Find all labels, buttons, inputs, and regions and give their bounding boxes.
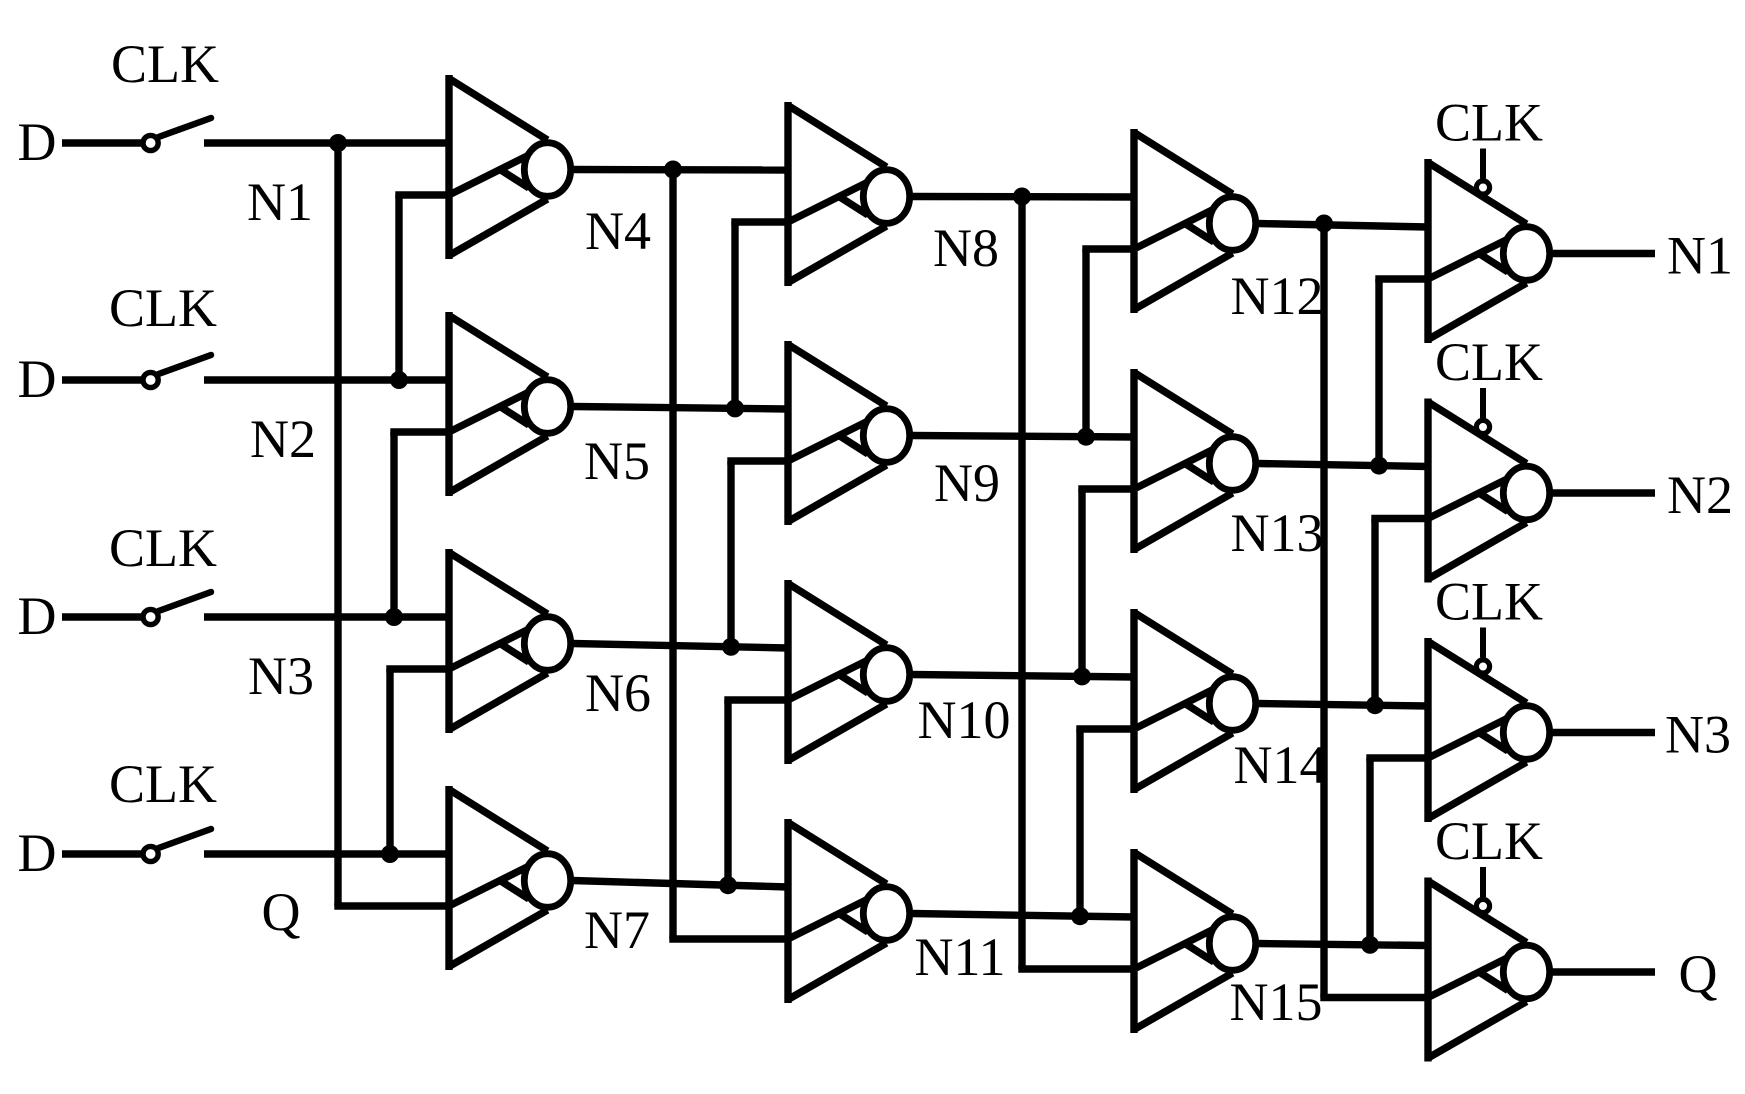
wire D input row 1 (left of switch): [62, 139, 141, 146]
svg-text:N14: N14: [1234, 735, 1327, 795]
wire node N12 output of inverter col3 row1: [1258, 224, 1429, 228]
wire node N14 output of inverter col3 row3: [1258, 704, 1429, 707]
wire node N8 output of inverter col2 row1: [912, 193, 1135, 201]
wire lower-input stub inverter col3 row2 horizontal: [1078, 485, 1134, 492]
wire lower-input stub inverter col3 row3 vertical: [1076, 729, 1083, 916]
wire node N2 from switch to inverter column 1: [204, 376, 449, 383]
wire output node N3 of inverter col4 row3: [1552, 729, 1656, 736]
wire lower-input stub inverter col3 row1 horizontal: [1082, 245, 1134, 252]
inverter G23 col2 row3: [788, 580, 910, 764]
svg-text:N7: N7: [584, 900, 650, 960]
svg-text:Q: Q: [1679, 944, 1718, 1004]
wire lower-input stub inverter col4 row1 horizontal: [1375, 275, 1428, 282]
svg-text:N6: N6: [585, 663, 651, 723]
junction stub col4 row3 on node wire: [1361, 936, 1379, 954]
inverter G24 col2 row4: [788, 819, 910, 1003]
inverter G22 col2 row2: [788, 341, 910, 525]
clock switch on inverter col4 row3: [1476, 628, 1489, 674]
svg-text:D: D: [18, 112, 57, 172]
wire lower-input stub inverter col1 row3 vertical: [386, 669, 393, 854]
svg-text:Q: Q: [262, 882, 301, 942]
wire lower-input stub inverter col2 row3 vertical: [724, 700, 731, 885]
svg-text:N1: N1: [1667, 226, 1733, 286]
wire feedback bus 3 bottom horizontal to inverter col3 row4 lower input: [1018, 965, 1134, 972]
junction stub col3 row1 on node wire: [1077, 428, 1095, 446]
svg-text:D: D: [18, 349, 57, 409]
inverter G14 col1 row4: [449, 786, 571, 970]
svg-text:CLK: CLK: [1435, 93, 1543, 153]
wire feedback bus 2 vertical: [669, 170, 676, 940]
inverter G44 col4 row4: [1428, 878, 1550, 1062]
junction bus 2 on node N4 wire: [664, 161, 682, 179]
wire node N11 output of inverter col2 row4: [912, 914, 1135, 918]
junction stub col2 row1 on node wire: [726, 399, 744, 417]
wire output node Q of inverter col4 row4: [1552, 968, 1656, 975]
wire lower-input stub inverter col2 row2 vertical: [727, 461, 734, 647]
wire feedback bus 1 bottom horizontal to inverter col1 row4 lower input: [334, 902, 449, 909]
wire node N10 output of inverter col2 row3: [912, 675, 1135, 678]
wire feedback bus 2 bottom horizontal to inverter col2 row4 lower input: [669, 935, 788, 942]
wire lower-input stub inverter col1 row2 vertical: [390, 432, 397, 617]
switch SW2 lever (CLK controlled) row 2: [143, 355, 211, 388]
svg-text:N11: N11: [915, 927, 1006, 987]
svg-text:N8: N8: [933, 218, 999, 278]
wire node N9 output of inverter col2 row2: [912, 436, 1135, 438]
wire node N6 output of inverter col1 row3: [573, 644, 789, 649]
svg-text:CLK: CLK: [1435, 572, 1543, 632]
svg-text:N15: N15: [1230, 972, 1323, 1032]
wire D input row 2 (left of switch): [62, 376, 141, 383]
wire lower-input stub inverter col2 row2 horizontal: [727, 457, 788, 464]
svg-text:D: D: [18, 823, 57, 883]
wire feedback bus 3 vertical: [1018, 197, 1025, 970]
wire feedback bus 1 vertical: [334, 143, 341, 906]
svg-text:N5: N5: [584, 431, 650, 491]
inverter G21 col2 row1: [788, 102, 910, 286]
inverter G34 col3 row4: [1134, 849, 1256, 1033]
wire lower-input stub inverter col3 row3 horizontal: [1076, 725, 1134, 732]
switch SW4 lever (CLK controlled) row 4: [143, 829, 211, 862]
wire node Q from switch to inverter column 1: [204, 850, 449, 857]
wire lower-input stub inverter col2 row1 horizontal: [731, 218, 788, 225]
wire lower-input stub inverter col4 row2 horizontal: [1371, 515, 1428, 522]
inverter G33 col3 row3: [1134, 609, 1256, 793]
switch SW3 lever (CLK controlled) row 3: [143, 592, 211, 625]
wire lower-input stub inverter col4 row3 horizontal: [1366, 754, 1428, 761]
junction stub col4 row2 on node wire: [1366, 696, 1384, 714]
inverter G42 col4 row2: [1428, 399, 1550, 583]
svg-text:CLK: CLK: [109, 518, 217, 578]
wire node N1 from switch to inverter column 1: [204, 139, 449, 146]
svg-text:N4: N4: [585, 201, 651, 261]
wire lower-input stub inverter col1 row2 horizontal: [390, 428, 449, 435]
junction node Q row 4 feedback tap: [381, 845, 399, 863]
wire node N5 output of inverter col1 row2: [573, 407, 789, 410]
wire lower-input stub inverter col4 row1 vertical: [1375, 279, 1382, 466]
junction bus 4 on node N12 wire: [1315, 215, 1333, 233]
wire output node N2 of inverter col4 row2: [1552, 489, 1656, 496]
svg-text:D: D: [18, 586, 57, 646]
wire node N4 output of inverter col1 row1: [573, 166, 789, 174]
wire lower-input stub inverter col2 row1 vertical: [731, 222, 738, 408]
svg-text:CLK: CLK: [109, 278, 217, 338]
wire D input row 4 (left of switch): [62, 850, 141, 857]
wire node N13 output of inverter col3 row2: [1258, 464, 1429, 467]
wire lower-input stub inverter col1 row1 vertical: [395, 195, 402, 380]
inverter G11 col1 row1: [449, 75, 571, 259]
svg-text:CLK: CLK: [1435, 332, 1543, 392]
inverter G31 col3 row1: [1134, 129, 1256, 313]
junction node N2 row 2 feedback tap: [390, 371, 408, 389]
svg-text:N1: N1: [247, 172, 313, 232]
wire lower-input stub inverter col3 row1 vertical: [1082, 249, 1089, 437]
wire lower-input stub inverter col4 row2 vertical: [1371, 519, 1378, 706]
switch SW1 lever (CLK controlled) row 1: [143, 118, 211, 151]
svg-text:N2: N2: [1667, 465, 1733, 525]
wire lower-input stub inverter col3 row2 vertical: [1078, 489, 1085, 676]
svg-text:CLK: CLK: [1435, 811, 1543, 871]
wire feedback bus 4 vertical: [1320, 224, 1327, 998]
wire feedback bus 4 bottom horizontal to inverter col4 row4 lower input: [1320, 994, 1428, 1001]
wire lower-input stub inverter col4 row3 vertical: [1366, 758, 1373, 945]
svg-text:CLK: CLK: [111, 34, 219, 94]
junction stub col4 row1 on node wire: [1370, 457, 1388, 475]
junction node N3 row 3 feedback tap: [385, 608, 403, 626]
junction stub col2 row2 on node wire: [722, 638, 740, 656]
clock switch on inverter col4 row4: [1476, 867, 1489, 913]
wire node N7 output of inverter col1 row4: [573, 881, 789, 888]
wire lower-input stub inverter col2 row3 horizontal: [724, 696, 788, 703]
svg-text:N3: N3: [248, 646, 314, 706]
junction bus 3 on node N8 wire: [1013, 188, 1031, 206]
wire output node N1 of inverter col4 row1: [1552, 250, 1656, 257]
wire node N3 from switch to inverter column 1: [204, 613, 449, 620]
wire node N15 output of inverter col3 row4: [1258, 944, 1429, 946]
svg-text:CLK: CLK: [109, 754, 217, 814]
junction stub col3 row3 on node wire: [1071, 907, 1089, 925]
inverter G32 col3 row2: [1134, 369, 1256, 553]
svg-text:N10: N10: [918, 690, 1011, 750]
wire lower-input stub inverter col1 row3 horizontal: [386, 665, 449, 672]
junction node N1 row 1 feedback tap: [329, 134, 347, 152]
junction stub col3 row2 on node wire: [1073, 667, 1091, 685]
inverter G12 col1 row2: [449, 312, 571, 496]
wire D input row 3 (left of switch): [62, 613, 141, 620]
clock switch on inverter col4 row1: [1476, 149, 1489, 195]
junction stub col2 row3 on node wire: [719, 876, 737, 894]
svg-text:N12: N12: [1231, 266, 1324, 326]
clock switch on inverter col4 row2: [1476, 388, 1489, 434]
wire lower-input stub inverter col1 row1 horizontal: [395, 191, 449, 198]
svg-text:N2: N2: [250, 409, 316, 469]
svg-text:N9: N9: [934, 453, 1000, 513]
svg-text:N13: N13: [1231, 503, 1324, 563]
inverter G41 col4 row1: [1428, 159, 1550, 343]
inverter G13 col1 row3: [449, 549, 571, 733]
inverter G43 col4 row3: [1428, 638, 1550, 822]
svg-text:N3: N3: [1665, 705, 1731, 765]
